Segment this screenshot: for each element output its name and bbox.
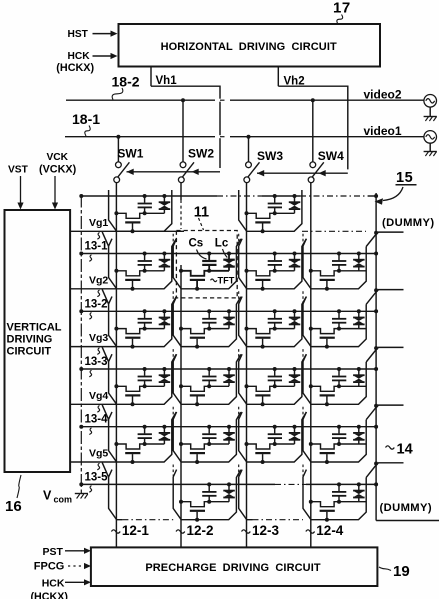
label TFT <box>211 279 217 282</box>
junction TFT source on column R3C1 <box>114 327 118 331</box>
junction TFT gate on Vg R4C2 <box>195 402 199 406</box>
gate line ring R5C3 <box>239 412 307 462</box>
svg-text:HORIZONTAL DRIVING CIRCUIT: HORIZONTAL DRIVING CIRCUIT <box>161 41 337 53</box>
svg-text:HCK: HCK <box>68 51 91 62</box>
svg-text:13-3: 13-3 <box>85 356 108 368</box>
capacitor Cs R4C2 <box>208 369 210 376</box>
svg-text:CIRCUIT: CIRCUIT <box>7 345 52 357</box>
switch SW1 <box>116 162 122 168</box>
signal arrow HCK into U17 <box>93 55 113 57</box>
junction video bus / SW1 feed <box>116 135 120 139</box>
junction TFT source on column R4C3 <box>245 384 249 388</box>
wire video feed to SW2 <box>182 100 184 162</box>
svg-text:Vg5: Vg5 <box>89 448 108 460</box>
junction 13-line 13-2 on Vcom bus <box>79 309 83 313</box>
wire right exit row4 <box>366 347 403 362</box>
leader squiggle 14 <box>386 446 395 449</box>
svg-text:video1: video1 <box>364 124 402 138</box>
TFT transistor R1C1 <box>116 213 144 218</box>
junction video bus / SW4 feed <box>311 98 315 102</box>
junction Lc top R4C3 <box>293 367 297 371</box>
junction Cs top R4C4 <box>337 367 341 371</box>
leader squiggle Vg4 <box>97 406 99 413</box>
junction TFT gate on Vg R4C3 <box>261 402 265 406</box>
junction TFT source on column R6C2 <box>179 500 183 504</box>
capacitor Cs R5C4 <box>338 427 340 434</box>
capacitor Cs R4C4 <box>338 369 340 376</box>
capacitor Cs R4C1 <box>144 369 146 376</box>
LC element Lc R4C3 <box>294 369 296 375</box>
node pixel R4C2 <box>207 384 211 388</box>
AC source video1 <box>424 131 437 144</box>
LC element Lc R4C1 <box>163 369 165 375</box>
wire Vcom common bus <box>80 195 82 492</box>
junction Cs top R4C3 <box>273 367 277 371</box>
gate line ring R2C2 <box>173 239 241 289</box>
node pixel R5C1 <box>143 442 147 446</box>
junction TFT source on column R1C3 <box>245 211 249 215</box>
svg-text:SW2: SW2 <box>188 146 214 160</box>
junction TFT gate on Vg R2C4 <box>325 287 329 291</box>
leader squiggle 12-4 <box>306 530 315 533</box>
capacitor Cs R2C1 <box>144 254 146 261</box>
node pixel R2C1 <box>143 269 147 273</box>
gate line ring R3C4 <box>303 297 366 347</box>
junction right bus row3 <box>374 309 378 313</box>
LC element Lc R1C3 <box>294 196 296 202</box>
junction TFT gate on Vg R5C2 <box>195 460 199 464</box>
junction Lc top R2C4 <box>357 252 361 256</box>
wire Vh2 drop from U17 <box>277 67 279 87</box>
wire inter-row stub R6C4 <box>302 465 304 476</box>
junction Lc top R3C2 <box>227 309 231 313</box>
capacitor Cs R2C2 <box>208 254 210 261</box>
horizontal driving circuit box U17 <box>119 24 381 67</box>
TFT transistor R4C2 <box>181 386 209 391</box>
arrowhead at SW2 blade <box>192 169 199 175</box>
leader Lc <box>223 249 228 258</box>
svg-text:Cs: Cs <box>189 238 204 250</box>
junction Cs top R2C3 <box>273 252 277 256</box>
node pixel R3C3 <box>273 327 277 331</box>
LC element Lc R6C2 <box>228 484 230 490</box>
junction Lc top R5C2 <box>227 425 231 429</box>
svg-text:SW1: SW1 <box>117 146 143 160</box>
junction right bus row4 <box>374 367 378 371</box>
junction TFT source on column R5C1 <box>114 442 118 446</box>
junction Cs top R3C1 <box>143 309 147 313</box>
junction Cs top R5C1 <box>143 425 147 429</box>
node pixel R4C4 <box>337 384 341 388</box>
wire inter-row stub R4C2 <box>172 349 174 360</box>
junction 13-line 13-4 on Vcom bus <box>79 425 83 429</box>
wire inter-row stub R2C4 <box>302 234 304 245</box>
junction 13-line 13-1 on Vcom bus <box>79 252 83 256</box>
wire storage line 13-3 <box>81 368 376 370</box>
wire video feed to SW1 <box>117 137 119 162</box>
junction TFT gate on Vg R5C4 <box>325 460 329 464</box>
junction Cs top R2C4 <box>337 252 341 256</box>
svg-text:Vg1: Vg1 <box>89 217 108 229</box>
junction Lc top R4C2 <box>227 367 231 371</box>
junction 13-line 13-5 on Vcom bus <box>79 482 83 486</box>
wire gate entry jog row4 <box>102 347 108 362</box>
capacitor Cs R5C2 <box>208 427 210 434</box>
leader squiggle Vg3 <box>97 348 99 355</box>
TFT transistor R5C1 <box>116 444 144 449</box>
wire inter-row stub R2C2 <box>172 234 174 245</box>
svg-text:(DUMMY): (DUMMY) <box>380 502 433 514</box>
node pixel R2C2 <box>207 269 211 273</box>
junction Cs top R4C2 <box>207 367 211 371</box>
wire storage line 13-4 <box>81 426 376 428</box>
node pixel R5C3 <box>273 442 277 446</box>
TFT transistor R3C3 <box>247 329 275 334</box>
wire inter-row stub R4C3 <box>238 349 240 360</box>
wire SW3-SW4 control rail <box>257 172 348 174</box>
junction TFT source on column R3C2 <box>179 327 183 331</box>
ground Vcom <box>80 491 82 494</box>
TFT transistor R4C4 <box>311 386 339 391</box>
junction Cs top R6C4 <box>337 482 341 486</box>
node pixel R2C3 <box>273 269 277 273</box>
capacitor Cs R1C1 <box>144 196 146 203</box>
leader squiggle 13-4 <box>89 428 91 435</box>
junction TFT gate on Vg R2C1 <box>131 287 135 291</box>
junction Lc top R4C1 <box>162 367 166 371</box>
svg-text:(HCKX): (HCKX) <box>31 591 69 599</box>
switch SW4 <box>310 162 316 168</box>
svg-text:11: 11 <box>194 204 209 220</box>
LC element Lc R2C2 <box>228 254 230 260</box>
junction Lc top R6C2 <box>227 482 231 486</box>
junction right bus row6 <box>374 482 378 486</box>
arrowhead at SW3 blade <box>257 170 264 176</box>
AC source video2 <box>424 95 437 108</box>
leader for 11 (dashed) <box>199 218 204 230</box>
junction Cs top R4C1 <box>143 367 147 371</box>
node pixel R3C4 <box>337 327 341 331</box>
wire inter-row stub R5C4 <box>302 407 304 418</box>
junction Cs top R5C3 <box>273 425 277 429</box>
capacitor Cs R1C3 <box>274 196 276 203</box>
leader squiggle for 16 <box>17 475 21 498</box>
wire video feed to SW4 <box>312 100 314 162</box>
node pixel R5C2 <box>207 442 211 446</box>
svg-text:13-4: 13-4 <box>85 414 109 426</box>
wire bottom dummy gate exit <box>376 520 439 522</box>
junction video bus / SW3 feed <box>247 135 251 139</box>
svg-text:V: V <box>43 489 52 503</box>
wire Vg6 dash continuation col1 <box>122 519 173 521</box>
junction TFT source on column R4C1 <box>114 384 118 388</box>
LC element Lc R5C2 <box>228 427 230 433</box>
leader squiggle 13-2 <box>89 313 91 320</box>
junction TFT gate on Vg R6C4 <box>325 518 329 522</box>
gate line ring R4C2 <box>173 354 241 404</box>
capacitor Cs R5C1 <box>144 427 146 434</box>
TFT transistor R2C3 <box>247 271 275 276</box>
svg-text:PRECHARGE DRIVING CIRCUIT: PRECHARGE DRIVING CIRCUIT <box>145 562 321 574</box>
junction Lc top R2C1 <box>162 252 166 256</box>
TFT transistor R4C3 <box>247 386 275 391</box>
svg-text:12-2: 12-2 <box>187 523 214 538</box>
capacitor Cs R3C2 <box>208 311 210 318</box>
gate line ring R6C4 <box>303 470 366 520</box>
junction Lc top R3C1 <box>162 309 166 313</box>
wire inter-row stub R6C3 <box>238 465 240 476</box>
node pixel R2C4 <box>337 269 341 273</box>
junction TFT source on column R1C1 <box>114 211 118 215</box>
leader squiggle 13-1 <box>89 255 91 262</box>
wire row1 storage line (dummy row) <box>81 195 217 197</box>
gate line ring R3C3 <box>239 297 307 347</box>
wire gate line Vg1 dash continuation <box>302 230 366 232</box>
svg-text:17: 17 <box>333 0 351 16</box>
node pixel R5C4 <box>337 442 341 446</box>
column data line 12-2 (broken at pixel 11) <box>180 183 182 200</box>
wire gate line Vg5 from U16 <box>70 461 117 463</box>
svg-text:(DUMMY): (DUMMY) <box>382 217 435 229</box>
TFT transistor R5C2 <box>181 444 209 449</box>
wire storage line 13-2 <box>81 310 376 312</box>
leader squiggle 18-1 to video1 <box>85 126 90 137</box>
svg-text:Lc: Lc <box>215 238 229 250</box>
junction TFT source on column R2C1 <box>114 269 118 273</box>
arrowhead at SW1 blade <box>127 169 134 175</box>
wire video1 bus <box>65 136 424 138</box>
capacitor Cs R3C3 <box>274 311 276 318</box>
gate line ring R5C4 <box>303 412 366 462</box>
LC element Lc R2C4 <box>358 254 360 260</box>
capacitor Cs R2C3 <box>274 254 276 261</box>
junction TFT gate on Vg R4C4 <box>325 402 329 406</box>
wire right exit row3 <box>366 290 403 305</box>
precharge driving circuit box U19 <box>91 547 378 586</box>
node pixel R3C1 <box>143 327 147 331</box>
gate line ring R3C2 <box>173 297 241 347</box>
gate line ring R1C3 <box>239 190 302 231</box>
gate line ring R5C1 <box>109 412 177 462</box>
leader squiggle 13-5 <box>89 486 91 493</box>
junction Lc top R1C3 <box>293 194 297 198</box>
LC element Lc R5C3 <box>294 427 296 433</box>
svg-text:12-4: 12-4 <box>316 523 344 538</box>
capacitor Cs R2C4 <box>338 254 340 261</box>
wire gate entry jog row5 <box>102 405 108 420</box>
junction Lc top R2C2 <box>227 252 231 256</box>
junction Cs top R5C4 <box>337 425 341 429</box>
wire Vg6 dash continuation col3 <box>253 519 304 521</box>
leader squiggle 18-2 to video2 <box>112 88 123 100</box>
junction 13-line 13-3 on Vcom bus <box>79 367 83 371</box>
svg-text:VST: VST <box>8 165 29 176</box>
TFT transistor R6C2 <box>181 502 209 507</box>
junction Cs top R3C4 <box>337 309 341 313</box>
leader squiggle 12-3 <box>242 530 251 533</box>
junction TFT source on column R3C3 <box>245 327 249 331</box>
junction Cs top R3C2 <box>207 309 211 313</box>
TFT transistor R2C4 <box>311 271 339 276</box>
junction Cs top R1C1 <box>143 194 147 198</box>
wire inter-row stub R2C3 <box>238 234 240 245</box>
signal arrow FPCG into U19 (dashed) <box>68 565 82 567</box>
svg-text:12-1: 12-1 <box>122 523 150 538</box>
leader squiggle Vg2 <box>97 290 99 297</box>
leader squiggle 12-2 <box>176 530 185 533</box>
svg-text:15: 15 <box>396 170 413 186</box>
junction TFT gate on Vg R3C1 <box>131 345 135 349</box>
junction Cs top R2C1 <box>143 252 147 256</box>
junction Cs top R5C2 <box>207 425 211 429</box>
gate line ring R4C3 <box>239 354 307 404</box>
wire inter-row stub R4C4 <box>302 349 304 360</box>
dash-dot break video1 <box>215 135 230 138</box>
gate line ring R2C1 <box>109 239 177 289</box>
capacitor Cs R6C2 <box>208 484 210 491</box>
junction TFT source on column R4C2 <box>179 384 183 388</box>
svg-text:com: com <box>54 495 73 505</box>
capacitor Cs R4C3 <box>274 369 276 376</box>
junction Lc top R3C4 <box>357 309 361 313</box>
svg-text:video2: video2 <box>364 88 402 102</box>
signal arrow HCK into U19 <box>65 581 86 583</box>
svg-text:TFT: TFT <box>218 275 235 285</box>
svg-text:(VCKX): (VCKX) <box>39 164 77 176</box>
svg-text:HST: HST <box>68 29 89 40</box>
arrowhead at SW4 blade <box>319 170 326 176</box>
wire storage line 13-5 <box>81 483 275 485</box>
wire inter-row stub R5C2 <box>172 407 174 418</box>
TFT transistor R5C3 <box>247 444 275 449</box>
wire inter-row stub R3C4 <box>302 291 304 303</box>
capacitor Cs R3C4 <box>338 311 340 318</box>
junction TFT source on column R2C2 <box>179 269 183 273</box>
junction TFT gate on Vg R3C4 <box>325 345 329 349</box>
node pixel R1C3 <box>273 211 277 215</box>
leader squiggle Vg5 <box>97 463 99 470</box>
capacitor Cs R6C4 <box>338 484 340 491</box>
wire right exit row2 <box>366 232 403 246</box>
wire AC source video2 to ground <box>429 107 431 116</box>
LC element Lc R3C1 <box>163 311 165 317</box>
gate line ring R5C2 <box>173 412 241 462</box>
capacitor Cs R5C3 <box>274 427 276 434</box>
wire gate entry jog row6 <box>102 463 108 478</box>
svg-text:14: 14 <box>397 442 413 458</box>
LC element Lc R1C1 <box>163 196 165 202</box>
node pixel R6C2 <box>207 500 211 504</box>
LC element Lc R3C4 <box>358 311 360 317</box>
LC element Lc R5C1 <box>163 427 165 433</box>
dash-dot break video2 <box>215 99 230 102</box>
wire Vh2 underline/run to SW control <box>278 86 348 169</box>
junction Cs top R1C3 <box>273 194 277 198</box>
svg-text:13-2: 13-2 <box>85 298 108 310</box>
gate line ring R3C1 <box>109 297 177 347</box>
junction TFT source on column R6C4 <box>309 500 313 504</box>
junction TFT gate on Vg R2C3 <box>261 287 265 291</box>
svg-text:(HCKX): (HCKX) <box>56 62 94 74</box>
leader squiggle 13-3 <box>89 370 91 377</box>
capacitor Cs R3C1 <box>144 311 146 318</box>
svg-text:FPCG: FPCG <box>34 561 65 573</box>
svg-text:SW4: SW4 <box>318 149 344 163</box>
signal arrow PST into U19 <box>65 550 86 552</box>
junction right bus row2 <box>374 252 378 256</box>
junction Lc top R6C4 <box>357 482 361 486</box>
svg-text:12-3: 12-3 <box>252 523 280 538</box>
TFT transistor R3C4 <box>311 329 339 334</box>
LC element Lc R2C3 <box>294 254 296 260</box>
junction TFT gate on Vg R2C2 <box>195 287 199 291</box>
svg-text:VCK: VCK <box>47 152 69 163</box>
LC element Lc R3C2 <box>228 311 230 317</box>
ground below video2 source <box>424 116 437 118</box>
leader Cs <box>197 250 207 260</box>
column data line 12-1 <box>115 183 117 548</box>
gate line ring R2C4 <box>303 239 366 289</box>
node pixel R4C1 <box>143 384 147 388</box>
vertical driving circuit box U16 <box>5 210 71 472</box>
LC element Lc R4C2 <box>228 369 230 375</box>
TFT transistor R2C1 <box>116 271 144 276</box>
junction TFT gate on Vg R4C1 <box>131 402 135 406</box>
wire gate line Vg1 from U16 <box>70 230 117 232</box>
junction TFT gate on Vg R1C3 <box>261 229 265 233</box>
gate line ring R2C3 <box>239 239 307 289</box>
svg-text:16: 16 <box>5 498 22 515</box>
wire Vh1 underline/run to SW control <box>151 86 220 168</box>
switch SW2 <box>180 162 186 168</box>
dashed outline pixel 11 <box>176 231 237 298</box>
junction Lc top R5C1 <box>162 425 166 429</box>
junction Lc top R1C1 <box>162 194 166 198</box>
junction TFT source on column R2C4 <box>309 269 313 273</box>
junction right bus row1 <box>374 194 378 198</box>
LC element Lc R4C4 <box>358 369 360 375</box>
wire SW1-SW2 control rail <box>127 171 221 173</box>
svg-text:18-2: 18-2 <box>112 73 140 89</box>
arrow from 15 to panel <box>383 187 403 201</box>
wire inter-row stub R3C2 <box>172 291 174 303</box>
LC element Lc R6C4 <box>358 484 360 490</box>
junction Cs top R2C2 <box>207 252 211 256</box>
junction TFT source on column R5C3 <box>245 442 249 446</box>
wire gate entry jog row3 <box>102 289 108 304</box>
wire inter-row stub R5C3 <box>238 407 240 418</box>
gate line ring R6C2 <box>173 470 241 520</box>
junction TFT gate on Vg R3C2 <box>195 345 199 349</box>
wire right dummy bus 14 <box>375 193 377 521</box>
wire gate line Vg1 run under dummy row <box>117 230 184 232</box>
leader squiggle Vg1 <box>97 233 99 240</box>
LC element Lc R2C1 <box>163 254 165 260</box>
svg-text:VERTICAL: VERTICAL <box>7 322 62 334</box>
junction TFT gate on Vg R6C2 <box>195 518 199 522</box>
TFT transistor R1C3 <box>247 213 275 218</box>
leader squiggle for 17 <box>337 15 343 25</box>
svg-text:13-5: 13-5 <box>85 471 109 483</box>
TFT transistor R6C4 <box>311 502 339 507</box>
svg-text:Vg3: Vg3 <box>89 332 108 344</box>
LC element Lc R5C4 <box>358 427 360 433</box>
switch SW3 <box>246 162 252 168</box>
TFT transistor R3C2 <box>181 329 209 334</box>
junction Lc top R5C3 <box>293 425 297 429</box>
wire right exit row5 <box>366 405 403 420</box>
node pixel R3C2 <box>207 327 211 331</box>
